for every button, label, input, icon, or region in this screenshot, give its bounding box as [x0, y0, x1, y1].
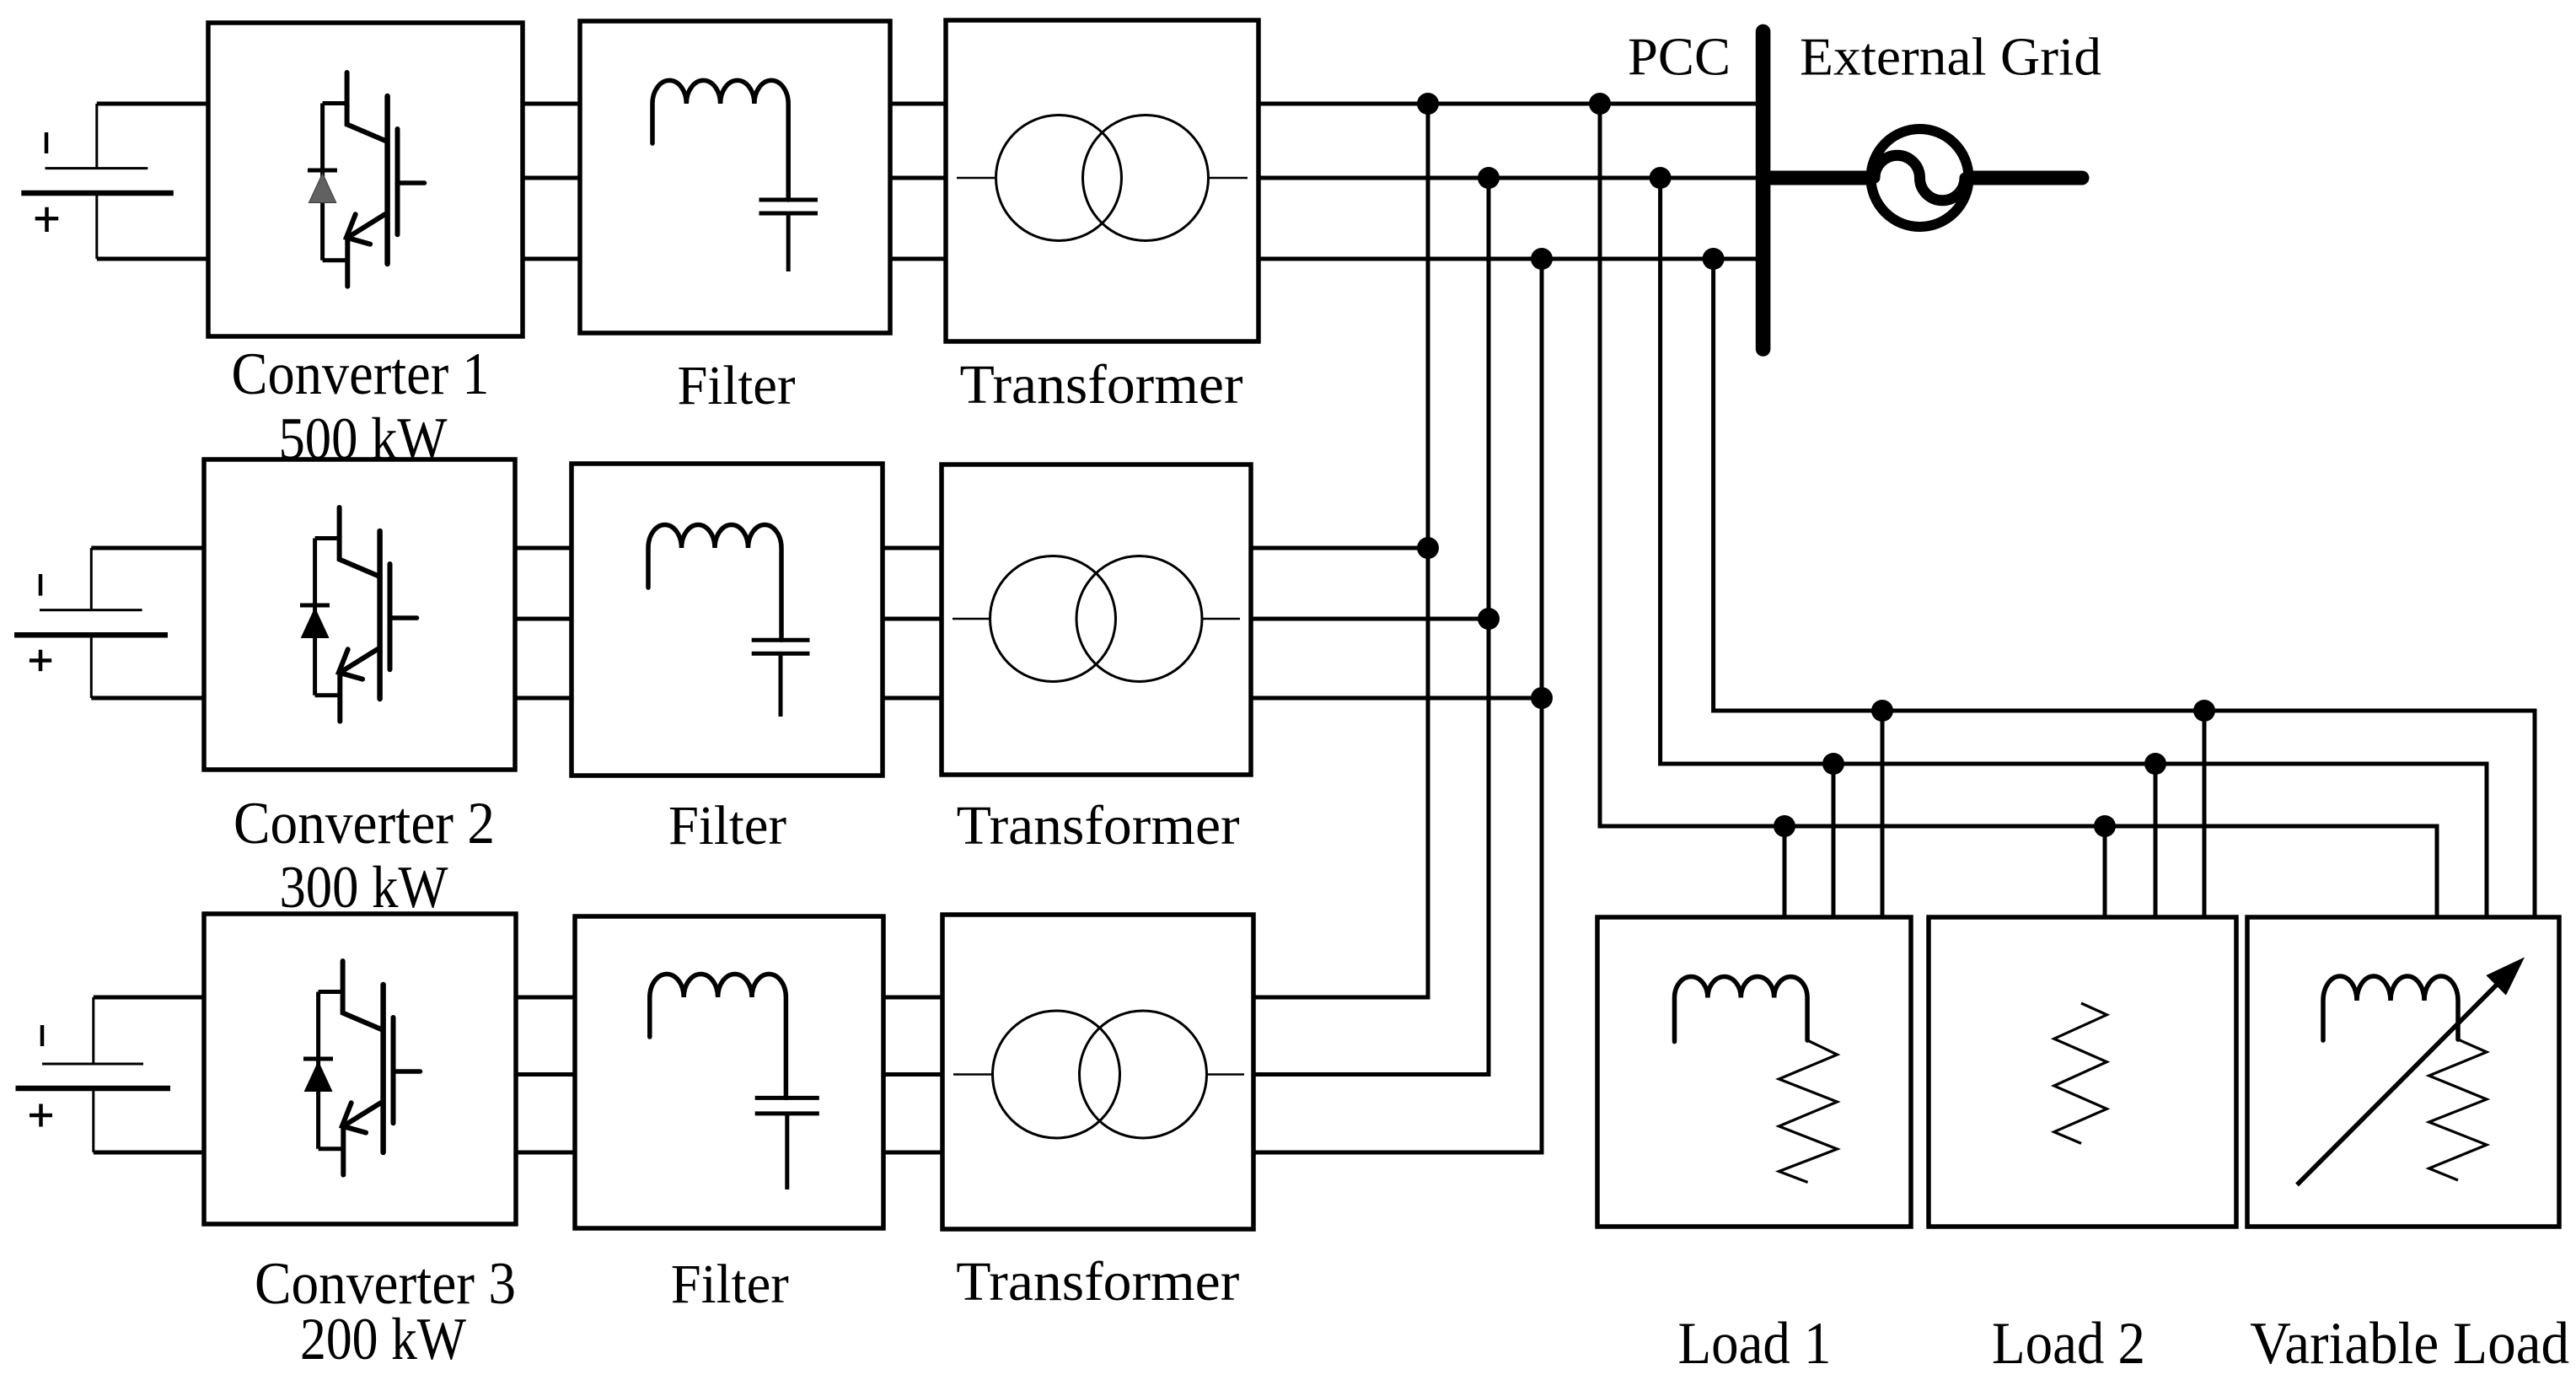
variable load arrow head	[2487, 958, 2524, 994]
wire filter1-transformer1 phase a	[890, 102, 946, 106]
dc source B1 lead stubs	[95, 104, 98, 259]
junction dot row2 phase c	[1531, 687, 1553, 709]
wire converter3-filter3 phase a	[516, 996, 575, 1000]
transformer 3 box	[942, 915, 1253, 1229]
filter 1 capacitor C1 tail	[786, 213, 791, 271]
external grid sine wave	[1875, 155, 1965, 200]
IGBT Q2 emitter diagonal	[340, 649, 378, 673]
wire converter1-filter1 phase b	[523, 176, 580, 180]
dc source B2 lead stubs	[90, 548, 93, 698]
wire filter2-transformer2 phase b	[883, 617, 942, 621]
wire load2 tap b	[2154, 764, 2158, 917]
dc source B2 negative wire	[91, 546, 204, 550]
dc source B3 plus label	[30, 1104, 52, 1127]
junction dot row1 phase c / V3	[1531, 248, 1553, 270]
diode D1 triangle (hatched)	[309, 174, 335, 203]
svg-text:Load 2: Load 2	[1992, 1311, 2145, 1377]
transformer 3 primary circle	[993, 1011, 1120, 1138]
dc source B1 plus label	[35, 207, 58, 232]
dc source B1 positive wire	[97, 257, 208, 261]
dc source B1 thin plate	[46, 167, 148, 169]
junction dot row2 phase a	[1417, 537, 1439, 559]
IGBT Q3 collector lead	[343, 961, 384, 1030]
variable load inductor	[2323, 976, 2458, 1040]
transformer 1 box	[946, 20, 1258, 341]
svg-text:Transformer: Transformer	[956, 1251, 1239, 1313]
IGBT Q2	[300, 507, 417, 722]
junction dot row2 phase b	[1478, 608, 1500, 630]
transformer 3 middle line	[953, 1073, 1244, 1076]
wire filter2-transformer2 phase a	[883, 546, 942, 550]
diode D1 branch	[320, 104, 325, 260]
svg-text:Converter 1: Converter 1	[232, 341, 490, 407]
wire feeder phase b (drop V5 and load feeder)	[1661, 178, 2487, 917]
junction dot feeder c / load1	[1871, 700, 1893, 722]
filter 2 inductor L2	[648, 524, 781, 640]
IGBT Q2 gate lead	[390, 615, 417, 620]
wire converter2-filter2 phase b	[515, 617, 572, 621]
junction dot feeder a / load1	[1774, 815, 1795, 837]
svg-text:300 kW: 300 kW	[280, 855, 448, 921]
filter 2 capacitor C2 plates	[752, 640, 810, 653]
dc source B1 minus label	[45, 132, 49, 153]
transformer 2 secondary circle	[1076, 556, 1202, 682]
wire transformer1-bus phase a	[1258, 102, 1756, 106]
PCC bus bar	[1756, 32, 1771, 350]
filter 1 box	[580, 21, 890, 333]
transformer 1 middle line	[957, 177, 1248, 180]
svg-text:Filter: Filter	[671, 1254, 789, 1315]
wire filter3-transformer3 phase b	[883, 1072, 942, 1077]
dc source B3 minus label	[40, 1025, 45, 1046]
dc source B2 thick plate	[14, 632, 168, 638]
wire load1 tap b	[1832, 764, 1836, 917]
wire filter1-transformer1 phase b	[890, 176, 946, 180]
wire filter3-transformer3 phase c	[883, 1151, 942, 1155]
svg-text:200 kW: 200 kW	[300, 1307, 466, 1372]
wire riser V2 (row3 phase b up to row1 phase b)	[1253, 178, 1489, 1075]
dc source B2 minus label	[39, 574, 43, 596]
svg-text:Transformer: Transformer	[957, 795, 1240, 856]
load 1 box	[1597, 917, 1911, 1227]
filter 3 capacitor C3 plates	[755, 1098, 819, 1114]
dc source B3 lead stubs	[92, 997, 94, 1152]
load 2 resistor zigzag	[2054, 1003, 2107, 1143]
filter 2 capacitor C2 tail	[779, 653, 783, 717]
IGBT Q3	[303, 961, 421, 1175]
dc source B3 thick plate	[16, 1086, 171, 1092]
variable load resistor zigzag	[2429, 1039, 2487, 1180]
IGBT Q1 gate lead	[398, 180, 425, 185]
filter 1 capacitor C1 plates	[759, 200, 818, 213]
junction dot feeder b / load2	[2144, 753, 2166, 775]
dc source B3 thin plate	[42, 1063, 143, 1066]
junction dot row1 phase a / V4	[1589, 93, 1611, 115]
svg-text:Filter: Filter	[678, 355, 796, 416]
transformer 3 secondary circle	[1080, 1011, 1207, 1138]
external grid source circle	[1871, 129, 1969, 227]
converter 3 box	[204, 914, 516, 1224]
diode D3 branch	[316, 992, 320, 1149]
wire load2 tap c	[2203, 711, 2207, 917]
junction dot feeder a / load2	[2094, 815, 2116, 837]
svg-text:Transformer: Transformer	[960, 354, 1243, 416]
load 1 inductor	[1675, 977, 1808, 1042]
diode D3 top connector	[319, 990, 343, 994]
transformer 1 primary circle	[996, 115, 1122, 241]
wire filter2-transformer2 phase c	[883, 696, 942, 701]
variable load box	[2247, 917, 2559, 1227]
filter 1 inductor L1	[652, 80, 788, 200]
IGBT Q3 gate lead	[394, 1069, 421, 1074]
wire riser V1 (row3 phase a up to row1 phase a)	[1253, 104, 1428, 997]
filter 3 capacitor C3 tail	[785, 1114, 789, 1189]
IGBT Q3 emitter diagonal	[343, 1103, 381, 1126]
diode D3 bottom connector	[319, 1146, 344, 1151]
wire load1 tap a	[1783, 826, 1787, 917]
diode D1 cathode bar	[308, 169, 337, 173]
svg-text:Load 1: Load 1	[1678, 1311, 1832, 1377]
wire transformer2 output phase b	[1251, 617, 1489, 621]
dc source B2 plus label	[30, 650, 51, 671]
IGBT Q2 gate bar	[388, 564, 393, 669]
svg-text:PCC: PCC	[1628, 28, 1731, 87]
wire transformer2 output phase a	[1251, 546, 1428, 550]
junction dot row1 phase b / V5	[1650, 167, 1672, 189]
transformer 2 primary circle	[990, 556, 1116, 682]
IGBT Q2 body bar	[377, 531, 383, 699]
converter 1 box	[208, 23, 523, 336]
IGBT Q3 body bar	[380, 985, 386, 1152]
diode D2 bottom connector	[315, 693, 341, 697]
diode D2 triangle	[301, 609, 328, 638]
junction dot row1 phase c / V6	[1703, 248, 1725, 270]
IGBT Q3 gate bar	[391, 1018, 396, 1123]
converter 2 box	[204, 459, 515, 770]
IGBT Q1 gate bar	[395, 129, 400, 234]
diode D1 bottom connector	[323, 258, 348, 262]
wire converter2-filter2 phase a	[515, 546, 572, 550]
dc source B1 negative wire	[97, 102, 208, 106]
wire transformer1-bus phase c	[1258, 257, 1756, 261]
dc source B2 thin plate	[40, 609, 142, 611]
filter 2 box	[572, 464, 883, 776]
wire converter3-filter3 phase c	[516, 1151, 575, 1155]
diode D2 cathode bar	[300, 604, 330, 608]
IGBT Q1 body bar	[384, 96, 390, 264]
diode D2 branch	[313, 539, 317, 695]
dc source B3 negative wire	[94, 996, 204, 1000]
junction dot row1 phase a / V1	[1417, 93, 1439, 115]
svg-text:Filter: Filter	[668, 795, 786, 856]
load 2 box	[1929, 917, 2236, 1227]
junction dot row1 phase b / V2	[1478, 167, 1500, 189]
diode D3 triangle	[304, 1062, 331, 1092]
wire converter1-filter1 phase c	[523, 257, 580, 261]
diode D3 cathode bar	[303, 1057, 333, 1061]
wire converter2-filter2 phase c	[515, 696, 572, 701]
transformer 1 secondary circle	[1083, 115, 1209, 241]
diode D1 top connector	[323, 101, 347, 105]
IGBT Q3 emitter arrow barbs	[342, 1103, 366, 1132]
wire converter1-filter1 phase a	[523, 102, 580, 106]
load 1 resistor zigzag	[1779, 1040, 1837, 1183]
IGBT Q1 emitter diagonal	[347, 214, 385, 238]
diode D2 top connector	[315, 536, 340, 540]
dc source B3 positive wire	[94, 1151, 204, 1155]
IGBT Q1 emitter arrow barbs	[346, 214, 370, 244]
wire riser V3 (row3 phase c up to row1 phase c)	[1253, 259, 1542, 1152]
wire filter1-transformer1 phase c	[890, 257, 946, 261]
filter 3 box	[575, 916, 883, 1228]
wire feeder phase c (drop V6 and load feeder)	[1714, 259, 2535, 917]
wire transformer1-bus phase b	[1258, 176, 1756, 180]
IGBT Q2 emitter arrow barbs	[339, 649, 362, 679]
junction dot feeder c / load2	[2193, 700, 2215, 722]
wire transformer2 output phase c	[1251, 696, 1542, 701]
transformer 2 middle line	[953, 618, 1240, 620]
IGBT Q3 emitter lead	[341, 1125, 346, 1174]
wire converter3-filter3 phase b	[516, 1072, 575, 1077]
dc source B1 thick plate	[21, 191, 174, 196]
IGBT Q1 emitter lead	[345, 236, 350, 286]
filter 3 inductor L3	[650, 975, 786, 1098]
wire feeder phase a (drop V4 and load feeder)	[1600, 104, 2437, 917]
wire load2 tap a	[2103, 826, 2107, 917]
transformer 2 box	[942, 464, 1251, 775]
variable load arrow shaft	[2297, 982, 2499, 1185]
dc source B2 positive wire	[91, 696, 204, 701]
junction dot feeder b / load1	[1822, 753, 1844, 775]
svg-text:External Grid: External Grid	[1800, 28, 2101, 87]
IGBT Q1 collector lead	[347, 72, 388, 142]
svg-text:Converter 2: Converter 2	[233, 791, 495, 856]
IGBT Q2 emitter lead	[337, 671, 342, 721]
wire filter3-transformer3 phase a	[883, 996, 942, 1000]
svg-text:Variable Load: Variable Load	[2250, 1311, 2569, 1377]
wire load1 tap c	[1881, 711, 1885, 917]
external grid thick line	[1768, 171, 2082, 185]
IGBT Q2 collector lead	[340, 507, 380, 577]
